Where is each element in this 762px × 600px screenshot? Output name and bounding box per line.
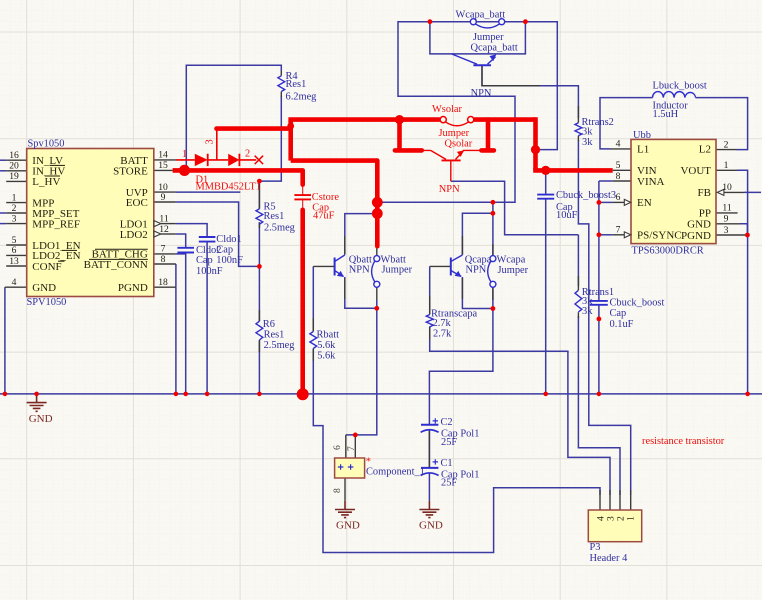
transistor Qsolar bar xyxy=(442,159,461,161)
svg-text:Cldo1: Cldo1 xyxy=(216,234,241,245)
wire R4 top rect to STORE blob xyxy=(186,65,281,181)
capacitor C1 polar bottom arc xyxy=(421,473,439,476)
svg-text:7: 7 xyxy=(616,225,621,236)
svg-text:PGND: PGND xyxy=(118,282,148,294)
svg-text:10uF: 10uF xyxy=(556,210,578,221)
wire Rtranscapa bottom to P3 pin3 xyxy=(430,327,610,495)
svg-text:3: 3 xyxy=(12,213,17,224)
SPV pin 2 line xyxy=(6,212,27,214)
jumper Wsolar arc xyxy=(446,122,469,126)
wire Cbuck_boost3 10uF bottom to bus xyxy=(545,199,547,394)
Qcapa collector pin segment xyxy=(461,236,463,255)
SPV pin 13 line xyxy=(6,265,27,267)
svg-text:MMBD452LT1: MMBD452LT1 xyxy=(196,182,261,193)
transistor Qsolar leads xyxy=(422,149,482,151)
P3 pin stubs xyxy=(600,490,631,510)
svg-text:VINA: VINA xyxy=(637,176,665,188)
svg-text:NPN: NPN xyxy=(349,264,370,275)
transistor Qcapa_batt emitter arrow xyxy=(490,54,497,61)
transistor Qcapa_batt emitter diag xyxy=(488,57,496,64)
wire Qcapa emitter right xyxy=(462,277,493,309)
pin arrow LDO1 output triangle xyxy=(154,221,161,227)
diode D1a cathode bar xyxy=(207,154,209,166)
jumper Wbatt arc xyxy=(372,261,375,282)
svg-text:Component_1: Component_1 xyxy=(366,467,425,478)
wire L1 to inductor xyxy=(600,98,653,149)
capacitor Cstore top lead xyxy=(302,185,304,195)
Wcapa jumper top lead xyxy=(492,244,494,256)
Ubb FB pin line xyxy=(724,191,745,193)
wire thick VIN riser xyxy=(533,117,538,170)
Qbatt collector pin segment xyxy=(344,236,346,255)
svg-text:C1: C1 xyxy=(441,458,453,469)
transistor Qcapa collector diag xyxy=(451,255,463,262)
svg-text:Res1: Res1 xyxy=(264,211,285,222)
resistor R4 zigzag xyxy=(278,76,285,92)
svg-text:VOUT: VOUT xyxy=(680,165,711,177)
svg-text:6: 6 xyxy=(332,445,343,450)
Ubb PS/SYNC pin line xyxy=(613,234,625,236)
junction blob L1 tap xyxy=(531,145,540,154)
junction dot bus cldo2 xyxy=(183,392,188,397)
Ubb VOUT pin line xyxy=(716,169,737,171)
SPV pin 16 line xyxy=(6,159,27,161)
svg-text:FB: FB xyxy=(698,187,711,199)
SPV pin 4 line xyxy=(5,286,27,288)
capacitor Cbuck_boost3 plates xyxy=(537,195,554,199)
resistor R5 zigzag xyxy=(256,209,263,224)
no-ERC cross on diode pin2 xyxy=(255,156,263,164)
svg-text:Ubb: Ubb xyxy=(633,130,651,141)
wire C2 C1 chain to GND xyxy=(428,430,430,501)
svg-text:11: 11 xyxy=(722,203,731,214)
wire EOC to R5/R6 node xyxy=(176,202,260,266)
junction blob solar left foot xyxy=(395,115,404,124)
wire Cbuck_boost3 10uF top xyxy=(545,172,547,194)
Wbatt jumper bottom lead xyxy=(376,287,378,300)
svg-text:25F: 25F xyxy=(441,478,457,489)
capacitor C2 plus sign xyxy=(433,418,438,423)
wire LDO1 to Cldo1 xyxy=(176,224,207,237)
wire Qbatt collector to thick node xyxy=(345,214,378,255)
wire Rtranscapa top to Qcapa base xyxy=(429,266,431,314)
svg-text:13: 13 xyxy=(9,256,19,267)
jumper Wsolar right circle xyxy=(468,117,474,123)
svg-text:Jumper: Jumper xyxy=(382,265,413,276)
junction dot bus pin18 xyxy=(174,392,179,397)
svg-text:0.1uF: 0.1uF xyxy=(610,319,634,330)
svg-text:GND: GND xyxy=(687,219,711,231)
capacitor Cstore bottom lead xyxy=(302,199,304,210)
R6 pin leads xyxy=(258,310,260,352)
junction dot Component pin7 xyxy=(353,433,358,438)
wire inductor to L2 xyxy=(696,98,748,150)
SPV pin 11 line xyxy=(161,223,176,225)
wire EN stub xyxy=(599,201,613,203)
SPV pin 3 line xyxy=(6,223,27,225)
diode D1b body xyxy=(228,154,239,166)
C2 C1 inter-plate leads xyxy=(428,431,430,468)
junction dot bus 10uF xyxy=(543,392,548,397)
svg-text:PS/SYNC: PS/SYNC xyxy=(637,230,682,242)
wire Rtrans2 bottom jog to P3 pin1 xyxy=(578,140,630,495)
SPV pin 7 line xyxy=(154,253,176,255)
transistor Qbatt emitter diag xyxy=(335,271,344,277)
R5 pin leads xyxy=(258,184,260,228)
junction dot bus 0.1uF xyxy=(597,392,602,397)
svg-text:GND: GND xyxy=(32,282,56,294)
svg-text:15: 15 xyxy=(158,160,168,171)
pin numbers Ubb xyxy=(616,139,732,236)
Component_1 body xyxy=(335,458,365,478)
wire PGND to bus xyxy=(175,287,177,394)
svg-text:TPS63000DRCR: TPS63000DRCR xyxy=(632,246,704,257)
SPV pin 20 line xyxy=(6,170,27,172)
svg-text:Cbuck_boost: Cbuck_boost xyxy=(610,297,665,308)
transistor Qsolar emitter arrow xyxy=(457,150,464,157)
Wbatt jumper top lead xyxy=(376,248,378,256)
svg-text:11: 11 xyxy=(159,213,168,224)
svg-text:5: 5 xyxy=(616,160,621,171)
svg-text:7: 7 xyxy=(346,446,357,451)
jumper Wcapa arc xyxy=(488,261,491,282)
wire diode cathode stub xyxy=(239,159,256,161)
wire Wcapa bottom to C2 xyxy=(429,287,493,425)
wire GND pin4 to bus xyxy=(4,287,6,394)
svg-text:6: 6 xyxy=(12,245,17,256)
svg-text:Cap: Cap xyxy=(610,308,627,319)
wire Qsolar base to PS/SYNC net xyxy=(451,181,579,235)
svg-text:3: 3 xyxy=(205,139,216,144)
svg-text:100nF: 100nF xyxy=(216,255,243,266)
wire LDO2 to Cldo2 xyxy=(176,234,186,248)
Wcapa jumper bottom lead xyxy=(492,287,494,300)
svg-text:2: 2 xyxy=(12,203,17,214)
wire Rtrans1 chain to P3 pin2 xyxy=(578,235,620,495)
resistor Rtranscapa zigzag xyxy=(426,315,433,328)
junction dot bus cldo1 xyxy=(205,392,210,397)
Ubb VINA pin line xyxy=(613,180,631,182)
wire SPV pin16 stub xyxy=(0,159,6,161)
svg-text:2.7k: 2.7k xyxy=(433,328,452,339)
svg-text:Qcapa_batt: Qcapa_batt xyxy=(471,43,518,54)
svg-text:GND: GND xyxy=(336,520,360,532)
jumper Wsolar left circle xyxy=(440,117,446,123)
junction blob emitter rail xyxy=(372,208,383,219)
svg-text:3k: 3k xyxy=(582,126,593,137)
junction dot bus gnd stub xyxy=(34,392,39,397)
Ubb EN pin line xyxy=(613,201,625,203)
wire thick mid rail xyxy=(291,158,378,163)
junction dot Wbatt emitter xyxy=(374,306,379,311)
svg-text:14: 14 xyxy=(158,150,168,161)
svg-text:8: 8 xyxy=(616,171,621,182)
svg-text:2.5meg: 2.5meg xyxy=(264,340,295,351)
transistor Qbatt collector diag xyxy=(335,255,345,262)
SPV pin 12 line xyxy=(161,233,176,235)
pin arrow LDO2 output triangle xyxy=(154,231,161,237)
pin arrow EN input triangle xyxy=(624,199,631,205)
wire PS/SYNC stub xyxy=(599,234,613,236)
wire SPV pin20 stub xyxy=(0,170,6,172)
svg-text:EN: EN xyxy=(637,197,652,209)
wire SPV pin2 stub xyxy=(0,212,6,214)
wire Wcapa node vertical xyxy=(492,202,494,255)
svg-text:9: 9 xyxy=(161,192,166,203)
svg-text:5.6k: 5.6k xyxy=(317,340,336,351)
junction dot EN node xyxy=(597,200,602,205)
svg-text:3: 3 xyxy=(724,225,729,236)
transistor Qsolar emitter diag xyxy=(456,151,464,159)
Rbatt pin leads xyxy=(312,318,314,361)
wire Cldo1 lead to bus xyxy=(206,242,208,394)
svg-text:1: 1 xyxy=(724,160,729,171)
svg-text:2: 2 xyxy=(245,149,250,160)
Ubb VIN pin line xyxy=(613,169,631,171)
wire thick solar rail left xyxy=(288,117,440,122)
svg-text:20: 20 xyxy=(9,161,19,172)
svg-text:Cbuck_boost3: Cbuck_boost3 xyxy=(556,190,616,201)
svg-text:C2: C2 xyxy=(441,417,453,428)
SPV pin 14 line xyxy=(154,159,176,161)
svg-text:8: 8 xyxy=(161,254,166,265)
wire BATT_CHG to Cldo2 lead xyxy=(176,253,186,255)
pin numbers SPV right xyxy=(158,150,169,288)
svg-text:Wcapa: Wcapa xyxy=(497,255,526,266)
wire thick VIN rail xyxy=(533,168,613,173)
wire Qbatt emitter to Wbatt node xyxy=(345,277,377,308)
R4 pin leads xyxy=(280,71,282,97)
wire VINA EN PSSYNC vertical xyxy=(599,181,613,301)
Qcapa base lead xyxy=(430,265,451,267)
svg-text:18: 18 xyxy=(158,277,168,288)
wire BATT_CONN down xyxy=(175,264,177,287)
svg-text:LDO2: LDO2 xyxy=(120,229,148,241)
svg-text:16: 16 xyxy=(9,150,19,161)
wire jumper Qcapa_batt left leg xyxy=(430,22,526,54)
svg-text:L2: L2 xyxy=(699,144,711,156)
svg-text:47uF: 47uF xyxy=(313,211,335,222)
wire thick jumper left foot xyxy=(395,120,422,151)
Component_1 pin7 lead xyxy=(354,435,356,458)
junction dot 0.1uF bottom xyxy=(597,317,602,322)
wire diode pin3 riser xyxy=(216,129,218,160)
wire Cldo2 lead to bus xyxy=(185,253,187,394)
junction blob 10uF tap xyxy=(541,166,550,175)
svg-text:3k: 3k xyxy=(582,137,593,148)
wire Wbatt down to Component pins xyxy=(346,300,377,435)
svg-text:GND: GND xyxy=(419,520,443,532)
IC Ubb TPS63000DRCR body xyxy=(631,139,716,243)
wire Qcapa_batt base to Rtrans2 xyxy=(482,65,578,118)
transistor Qbatt bar xyxy=(334,258,336,276)
capacitor C2 polar bottom arc xyxy=(421,430,439,433)
wire thick jumper right foot xyxy=(481,120,494,151)
ground symbol GND under Component_1 xyxy=(335,501,355,518)
transistor Qsolar base lead xyxy=(450,160,452,181)
Qbatt base lead xyxy=(313,265,334,267)
svg-text:6.2meg: 6.2meg xyxy=(286,92,317,103)
svg-text:Header 4: Header 4 xyxy=(590,553,629,564)
svg-text:Cstore: Cstore xyxy=(312,192,340,203)
transistor Qcapa bar xyxy=(450,258,452,276)
Ubb PGND pin line xyxy=(716,234,747,236)
svg-text:1.5uH: 1.5uH xyxy=(653,109,679,120)
svg-text:resistance transistor: resistance transistor xyxy=(642,436,725,447)
junction dot Wcapa_batt right xyxy=(523,19,528,24)
capacitor Cstore plates xyxy=(294,195,311,199)
wire UVP stub xyxy=(176,191,240,193)
transistor Qbatt emitter arrow xyxy=(337,271,344,277)
svg-text:Qsolar: Qsolar xyxy=(445,139,473,150)
pin arrow FB input triangle xyxy=(717,189,724,195)
wire thick Cstore lower to bus xyxy=(300,210,305,394)
ground symbol GND under C1 xyxy=(419,501,439,518)
wire Qcapa collector up xyxy=(462,213,493,255)
junction dot PGND tie xyxy=(745,233,750,238)
svg-text:2.5meg: 2.5meg xyxy=(264,223,295,234)
svg-text:Res1: Res1 xyxy=(264,329,285,340)
svg-text:8: 8 xyxy=(332,488,343,493)
transistor Qsolar collector diag xyxy=(431,150,446,159)
wire R5 R6 chain xyxy=(258,181,260,394)
wire Cbuck_boost 0.1uF bottom to bus xyxy=(598,305,600,394)
svg-text:12: 12 xyxy=(159,224,169,235)
jumper Wcapa bottom circle xyxy=(490,281,496,287)
SPV pin 5 line xyxy=(6,244,27,246)
junction dot bus r6 xyxy=(257,392,262,397)
svg-text:Res1: Res1 xyxy=(286,79,307,90)
transistor Qcapa_batt collector diag xyxy=(452,54,478,64)
Rtrans1 pin leads xyxy=(577,276,579,318)
Ubb GND pin line xyxy=(716,223,740,225)
svg-text:Cap: Cap xyxy=(196,255,213,266)
Qcapa emitter pin segment xyxy=(461,278,463,299)
SPV pin 18 line xyxy=(154,286,176,288)
capacitor Cldo1 plates xyxy=(199,237,216,242)
svg-text:PGND: PGND xyxy=(681,230,711,242)
pin arrow PS/SYNC input triangle xyxy=(624,232,631,238)
svg-text:SPV1050: SPV1050 xyxy=(27,297,67,308)
svg-text:STORE: STORE xyxy=(113,166,148,178)
svg-text:1: 1 xyxy=(626,516,637,521)
svg-text:19: 19 xyxy=(9,171,19,182)
Qbatt emitter pin segment xyxy=(344,278,346,299)
wire thick diode pin3 branch xyxy=(217,126,291,131)
SPV pin 10 line xyxy=(154,191,176,193)
junction dot R5 R6 EOC node xyxy=(257,264,262,269)
jumper Wbatt bottom circle xyxy=(374,281,380,287)
jumper Wcapa top circle xyxy=(490,256,496,262)
svg-text:Wsolar: Wsolar xyxy=(432,104,463,115)
capacitor Cbuck_boost plates xyxy=(590,301,608,305)
SPV pin 15 line xyxy=(154,169,173,171)
svg-text:NPN: NPN xyxy=(466,264,487,275)
resistor Rtrans1 zigzag xyxy=(575,290,582,312)
wire SPV pin3 stub xyxy=(0,223,6,225)
Qcapa_batt base pin segment xyxy=(482,65,540,86)
transistor Qcapa_batt bar xyxy=(473,64,491,66)
Ubb L1 pin line xyxy=(611,148,632,150)
svg-text:5.6k: 5.6k xyxy=(317,350,336,361)
Component_1 pin6 lead xyxy=(345,435,347,458)
svg-text:L_HV: L_HV xyxy=(32,176,60,188)
wire thick left riser xyxy=(288,120,293,161)
inductor Lbuck_boost humps xyxy=(653,92,696,98)
capacitor C2 polar top plate xyxy=(421,424,438,426)
header pin numbers xyxy=(596,516,637,521)
junction dot Wcapa emitter rail xyxy=(491,211,496,216)
svg-text:*: * xyxy=(366,457,371,468)
jumper Wcapa_batt right circle xyxy=(499,19,505,25)
svg-text:CONF: CONF xyxy=(32,261,61,273)
svg-text:GND: GND xyxy=(29,413,53,425)
junction dot Wcapa collector rail xyxy=(491,200,496,205)
diode D1b cathode bar xyxy=(238,154,240,166)
svg-text:NPN: NPN xyxy=(439,184,460,195)
svg-text:Wcapa_batt: Wcapa_batt xyxy=(456,10,506,21)
svg-text:Jumper: Jumper xyxy=(473,32,504,43)
jumper Wcapa_batt left circle xyxy=(470,19,476,25)
junction blob Cstore bus xyxy=(297,388,309,400)
Rtranscapa pin leads xyxy=(429,296,431,340)
Component_1 pin8 lead xyxy=(344,478,346,501)
SPV pin 1 line xyxy=(6,202,27,204)
Rtrans2 pin leads xyxy=(577,106,579,141)
junction blob diode branch corner xyxy=(287,123,294,130)
svg-text:Jumper: Jumper xyxy=(498,265,529,276)
transistor Qcapa emitter arrow xyxy=(455,271,462,277)
svg-text:EOC: EOC xyxy=(126,197,148,209)
Ubb PP pin line xyxy=(716,212,738,214)
pin numbers SPV left xyxy=(9,150,19,288)
junction dot Wcapa emitter xyxy=(491,306,496,311)
wire FB out xyxy=(744,191,761,193)
junction dot PS/SYNC node xyxy=(597,232,602,237)
svg-text:P3: P3 xyxy=(590,542,601,553)
svg-text:1: 1 xyxy=(12,192,17,203)
svg-text:10: 10 xyxy=(722,182,732,193)
svg-text:MPP_REF: MPP_REF xyxy=(32,218,80,230)
capacitor Cldo2 plates xyxy=(177,248,194,253)
capacitor C1 polar top plate xyxy=(421,467,438,469)
svg-text:9: 9 xyxy=(724,214,729,225)
SPV pin 8 line xyxy=(154,263,176,265)
svg-text:4: 4 xyxy=(12,277,17,288)
resistor Rbatt zigzag xyxy=(310,332,317,349)
svg-text:Lbuck_boost: Lbuck_boost xyxy=(653,81,707,92)
svg-text:5: 5 xyxy=(12,235,17,246)
junction dot Wcapa_batt left xyxy=(428,19,433,24)
junction blob collector rail xyxy=(372,197,383,208)
svg-text:3k: 3k xyxy=(582,306,593,317)
header P3 body xyxy=(588,510,641,542)
junction blob STORE pin xyxy=(179,165,190,176)
IC U? SPV1050 body xyxy=(27,149,154,297)
svg-text:BATT_CONN: BATT_CONN xyxy=(84,259,148,271)
junction dot R4 R5 node xyxy=(257,179,262,184)
wire thick Cstore upper stub xyxy=(300,170,305,184)
svg-text:NPN: NPN xyxy=(471,88,492,99)
wire VOUT to bus xyxy=(737,170,748,394)
svg-text:Spv1050: Spv1050 xyxy=(28,138,65,149)
capacitor C1 plus sign xyxy=(433,459,438,464)
svg-text:100nF: 100nF xyxy=(196,266,223,277)
resistor R6 zigzag xyxy=(256,321,263,340)
jumper Wcapa_batt arc xyxy=(476,24,500,28)
wire diode mid lead xyxy=(208,159,229,161)
wire GND9 PGND tie xyxy=(740,224,747,235)
